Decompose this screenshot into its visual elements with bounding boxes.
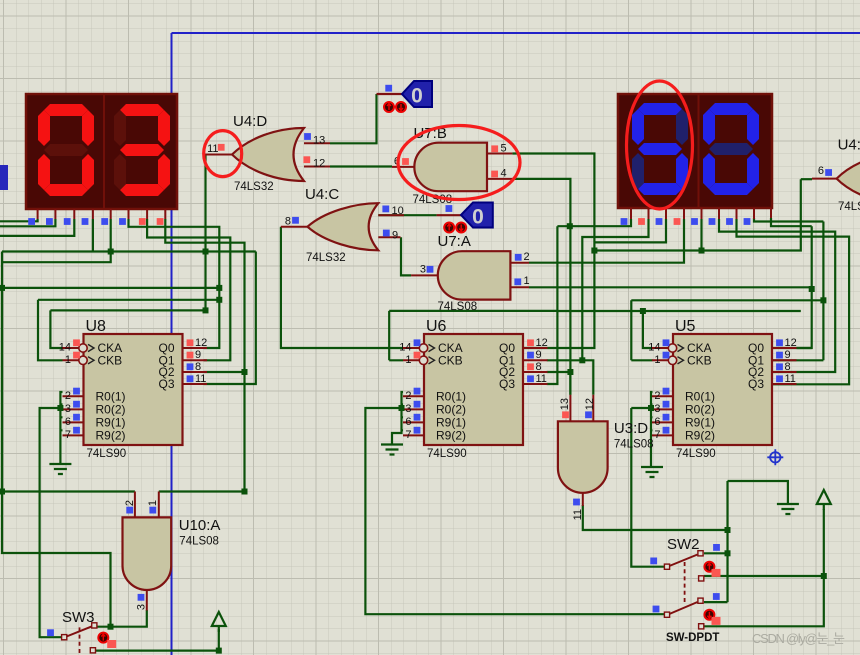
svg-text:12: 12: [584, 398, 596, 410]
wire: U10:A pin2 row from left: [2, 288, 135, 492]
blue display pin state squares: [621, 218, 628, 225]
junction (244.5,491.5): [242, 489, 248, 495]
svg-text:5: 5: [501, 143, 507, 155]
svg-text:R9(1): R9(1): [436, 416, 466, 430]
svg-text:7: 7: [65, 429, 71, 441]
junction (642.9,311): [640, 308, 646, 314]
wire: U4:C pin10 to probe2: [378, 214, 436, 216]
U7:A pin 1 label: [514, 278, 521, 285]
junction (594.4,250.5): [591, 248, 597, 254]
and-gate U10:A (vertical, pointing down): [123, 517, 172, 590]
svg-text:74LS32: 74LS32: [306, 252, 346, 264]
svg-text:12: 12: [536, 337, 548, 349]
svg-text:U8: U8: [86, 318, 107, 335]
svg-text:8: 8: [785, 361, 791, 373]
wire: U6 R pins tie and ground: [365, 392, 664, 614]
svg-text:1: 1: [147, 500, 159, 506]
wire: U5 R pins tie and ground: [631, 392, 652, 467]
svg-text:6: 6: [405, 416, 411, 428]
wire: U8 R pins tie and ground / SW3: [40, 392, 63, 637]
wire: U3:D output to SW2 via right column: [583, 481, 788, 602]
blue bar fragment at left edge: [0, 165, 8, 190]
svg-text:8: 8: [536, 361, 542, 373]
or-gate U4:C (mirrored): [308, 203, 379, 250]
svg-text:0: 0: [472, 206, 484, 229]
svg-text:CKB: CKB: [438, 354, 463, 368]
wire: display p7 to U8 Q1: [147, 219, 230, 360]
svg-text:2: 2: [124, 500, 136, 506]
svg-text:3: 3: [136, 604, 148, 610]
ground (right column near SW2): [777, 504, 799, 514]
junction (823.8,576): [821, 573, 827, 579]
svg-text:U6: U6: [426, 318, 447, 335]
svg-text:1: 1: [524, 275, 530, 287]
svg-text:14: 14: [648, 342, 660, 354]
svg-text:12: 12: [313, 158, 325, 170]
logic probe 0 (middle, U4:C pin10 net): [437, 203, 493, 233]
svg-text:R0(1): R0(1): [96, 390, 126, 404]
svg-text:74LS: 74LS: [838, 201, 860, 213]
wire: red display p2 left row: [0, 219, 55, 226]
highlight ellipse around U4:D output: [204, 131, 242, 177]
svg-text:4: 4: [501, 168, 507, 180]
U10:A pins 2,1,3: [135, 492, 159, 611]
dashed gang link: [684, 562, 686, 602]
ground (U8 reset pins): [49, 464, 71, 474]
dashed gang link: [79, 627, 81, 655]
svg-text:9: 9: [536, 349, 542, 361]
wire: far right gate pin6: [801, 178, 812, 180]
svg-text:1: 1: [65, 354, 71, 366]
svg-text:10: 10: [392, 205, 404, 217]
wire: U5 CKB riser from row300 to SW2 upper pole: [631, 300, 823, 566]
junction (727.5,553.3): [725, 550, 731, 556]
origin crosshair marker: [767, 449, 783, 465]
svg-text:9: 9: [785, 349, 791, 361]
U4:C pin 8 label: [292, 217, 299, 224]
junction (60.4,408): [57, 405, 63, 411]
upper pole: [650, 558, 657, 565]
U7:A pins 3,2,1: [411, 263, 529, 288]
switch SW3 (half of SW-DPDT): [47, 609, 116, 655]
or-gate U4:D (mirrored): [232, 128, 304, 181]
wire: U7:B pin4 descender joins blue p1 net: [512, 179, 631, 395]
wire: U5 Q0 riser: [772, 347, 812, 349]
svg-text:11: 11: [572, 509, 584, 520]
gate pin squares and numbers: [124, 133, 832, 610]
svg-text:SW3: SW3: [62, 609, 95, 626]
junction (205.5,310.4): [203, 307, 209, 313]
U4:C pins 8,10,9: [281, 215, 404, 237]
svg-text:R0(1): R0(1): [685, 390, 715, 404]
junction (701.5,250.5): [699, 248, 705, 254]
7-segment display DS2 (blue, shows 50): [618, 94, 772, 225]
svg-text:7: 7: [405, 429, 411, 441]
wire: U6 Q0 stub: [523, 347, 547, 349]
svg-text:Q3: Q3: [748, 377, 764, 391]
svg-text:R0(2): R0(2): [96, 403, 126, 417]
counter U8 74LS90: [59, 318, 208, 460]
svg-text:74LS90: 74LS90: [676, 448, 716, 460]
ground (U5 reset pins): [641, 467, 663, 477]
U4:D pins 11,13,12: [204, 143, 331, 166]
wire: U3:D pin13 riser from Q2 junction: [569, 372, 571, 395]
junction (401.5,408): [399, 405, 405, 411]
junction (110.5,626.7): [108, 624, 114, 630]
wire: blue display p4 row to U7:A pin2: [529, 219, 684, 263]
junction (727.5,530): [725, 527, 731, 533]
svg-text:9: 9: [392, 230, 398, 242]
svg-text:U4:D: U4:D: [233, 113, 267, 130]
svg-text:14: 14: [59, 342, 71, 354]
svg-text:1: 1: [405, 354, 411, 366]
svg-text:6: 6: [818, 165, 824, 177]
svg-text:2: 2: [654, 390, 660, 402]
svg-text:11: 11: [785, 373, 796, 385]
wire: U6 Q3 to U5 CKA cascade row: [557, 311, 800, 348]
svg-text:R9(2): R9(2): [436, 429, 466, 443]
junction (2,491.5): [0, 489, 5, 495]
wire: row4 right end riser to U8 Q3: [204, 252, 256, 385]
svg-text:3: 3: [65, 403, 71, 415]
svg-text:74LS90: 74LS90: [87, 448, 127, 460]
svg-text:74LS08: 74LS08: [179, 536, 219, 548]
wire: U6 CKB riser to SW2 lower pole: [389, 311, 557, 360]
svg-text:74LS08: 74LS08: [438, 301, 478, 313]
svg-text:SW2: SW2: [667, 536, 700, 553]
svg-text:6: 6: [654, 416, 660, 428]
svg-text:R0(2): R0(2): [685, 403, 715, 417]
svg-text:6: 6: [65, 416, 71, 428]
red digit 3: [114, 104, 170, 196]
svg-text:Q3: Q3: [499, 377, 515, 391]
svg-text:R9(1): R9(1): [96, 416, 126, 430]
U4:D pin 11 label: [218, 144, 225, 151]
svg-text:R9(1): R9(1): [685, 416, 715, 430]
U4:D pin 12 label: [303, 156, 310, 163]
blue display pins: [631, 208, 771, 219]
far right gate pin 6: [812, 178, 837, 180]
svg-text:U4:C: U4:C: [305, 186, 339, 203]
svg-text:14: 14: [399, 342, 411, 354]
U3:D pins 13,12,11: [570, 395, 593, 506]
svg-text:CKB: CKB: [687, 354, 712, 368]
svg-text:8: 8: [285, 216, 291, 228]
power arrow near SW2: [817, 490, 831, 510]
svg-text:74LS08: 74LS08: [614, 438, 654, 450]
wire: row6 net (display p6, U8 Q0): [2, 219, 219, 348]
U7:B pin 5 label: [491, 145, 498, 152]
svg-text:U7:A: U7:A: [438, 233, 471, 250]
red display pins: [38, 209, 166, 219]
svg-text:13: 13: [559, 398, 571, 410]
counter U6 74LS90: [399, 318, 548, 460]
gate pin stubs dark red: [135, 143, 837, 610]
svg-text:Q3: Q3: [158, 377, 174, 391]
lever: [67, 626, 93, 636]
svg-text:R0(2): R0(2): [436, 403, 466, 417]
junction (823.4,300.3): [820, 297, 826, 303]
U7:B pin 4 label: [491, 171, 498, 178]
wire: probe1 vertical to U4:D pin13: [330, 94, 377, 143]
gate labels: [179, 113, 860, 548]
svg-text:74LS32: 74LS32: [234, 181, 274, 193]
svg-text:74LS90: 74LS90: [427, 448, 467, 460]
junction (811.7,289): [809, 286, 815, 292]
highlight ellipse around U7:B: [398, 126, 520, 200]
U7:B pins 6,5,4: [392, 154, 512, 179]
svg-text:13: 13: [313, 135, 325, 147]
svg-text:7: 7: [654, 429, 660, 441]
wire: U7:B pin5 descender to U6 Q0: [512, 154, 800, 349]
svg-text:3: 3: [405, 403, 411, 415]
and-gate U7:B (mirrored): [414, 143, 487, 192]
junction (219.3,287.9): [216, 285, 222, 291]
lower pole: [653, 606, 660, 613]
blue digit 5: [632, 103, 688, 195]
svg-text:11: 11: [536, 373, 547, 385]
wire: blue display p5 stub to row: [700, 219, 702, 251]
and-gate U7:A (mirrored): [438, 251, 511, 299]
wire: SW2 throw2 rows to up-arrow column: [704, 509, 824, 626]
svg-text:3: 3: [654, 403, 660, 415]
svg-text:U3:D: U3:D: [614, 420, 648, 437]
wire: up-arrow stem near SW3: [218, 629, 220, 651]
junction (2,287.9): [0, 285, 5, 291]
U7:A pin 3 label: [427, 266, 434, 273]
logic probe 0 (top, near U4:D pin13 net): [377, 81, 433, 112]
svg-text:12: 12: [195, 337, 207, 349]
junction (205.5,251.5): [203, 249, 209, 255]
junction (582.3,360.3): [579, 357, 585, 363]
wire: U4:C output down to U6 CKA: [281, 227, 403, 348]
svg-text:U4:: U4:: [838, 137, 860, 154]
red display pin state squares: [28, 218, 35, 225]
U4:D pin 13 label: [304, 133, 311, 140]
wire: U4:C pin9 to U7:A out3: [401, 237, 411, 275]
junction (569.8,226.2): [567, 223, 573, 229]
svg-text:9: 9: [195, 349, 201, 361]
svg-text:3: 3: [420, 264, 426, 276]
ground (U6 reset pins): [381, 445, 403, 455]
svg-text:R9(2): R9(2): [96, 429, 126, 443]
svg-text:0: 0: [411, 85, 423, 108]
switch SW2 SW-DPDT: [650, 536, 720, 644]
svg-text:U5: U5: [675, 318, 696, 335]
svg-text:11: 11: [207, 143, 218, 155]
U4:C pin 10 label: [382, 206, 389, 213]
junction (651,408): [648, 405, 654, 411]
junction (218.8,650.6): [216, 648, 222, 654]
wire: U8 CKB net row7: [38, 300, 219, 361]
junction (570.4,372): [567, 369, 573, 375]
svg-text:2: 2: [524, 251, 530, 263]
clock edge markers: [384, 102, 394, 112]
wire: row4 net (display p4, p5, U4:D out, U8 CKA): [2, 219, 256, 627]
svg-text:1: 1: [654, 354, 660, 366]
wire: blue display p7 to U5 Q3: [737, 219, 850, 384]
svg-text:8: 8: [195, 361, 201, 373]
junction (219.3,299.8): [216, 297, 222, 303]
red digit 0: [38, 104, 94, 196]
svg-text:SW-DPDT: SW-DPDT: [666, 632, 719, 644]
wire: red display p3 left row: [0, 219, 74, 236]
or-gate U4 far right (partial, mirrored): [837, 152, 860, 205]
wire: blue display p6 to U5 Q2: [719, 219, 835, 372]
svg-text:2: 2: [405, 390, 411, 402]
blue selection border: [172, 33, 860, 655]
blue digit 0: [703, 103, 759, 195]
highlight ellipse around blue digit 5: [627, 81, 693, 209]
wire: blue display p2 to U6 Q1 and U3:D pin12: [547, 219, 649, 395]
wire: display p8 / U8 Q2 / U10:A pin1 / U4:C out net: [159, 219, 245, 492]
wire: U10:A output to SW3 throw1 junction: [97, 610, 147, 627]
wire: U4:D output descender to row8: [50, 155, 205, 349]
svg-text:2: 2: [65, 390, 71, 402]
power arrow near SW3: [212, 612, 226, 632]
svg-text:12: 12: [785, 337, 797, 349]
U7:B pin 6 label: [402, 158, 409, 165]
wire: SW3 throw2 long bottom row: [96, 649, 219, 651]
and-gate U3:D (vertical, pointing down): [558, 421, 608, 493]
U4:C pin 9 label: [383, 230, 390, 237]
wire: red display p1 left row: [0, 219, 38, 221]
svg-text:R9(2): R9(2): [685, 429, 715, 443]
svg-text:11: 11: [195, 373, 206, 385]
counter U5 74LS90: [648, 318, 797, 460]
junction (244.5,372): [242, 369, 248, 375]
U7:A pin 2 label: [515, 254, 522, 261]
wire: U4:D pin12 to U7:B pin6: [330, 165, 392, 167]
svg-text:R0(1): R0(1): [436, 390, 466, 404]
7-segment display DS1 (red, shows 03): [26, 94, 177, 225]
svg-text:CKB: CKB: [98, 354, 123, 368]
svg-text:U10:A: U10:A: [179, 517, 221, 534]
wire: U7:A pin1 long row to U5 Q0 riser: [529, 218, 812, 348]
wire: U5 Q1 riser to row300 and blue p8: [754, 218, 823, 360]
svg-text:CSDN @ly@눈_눈: CSDN @ly@눈_눈: [752, 631, 845, 646]
junction (110.7,251.5): [108, 249, 114, 255]
